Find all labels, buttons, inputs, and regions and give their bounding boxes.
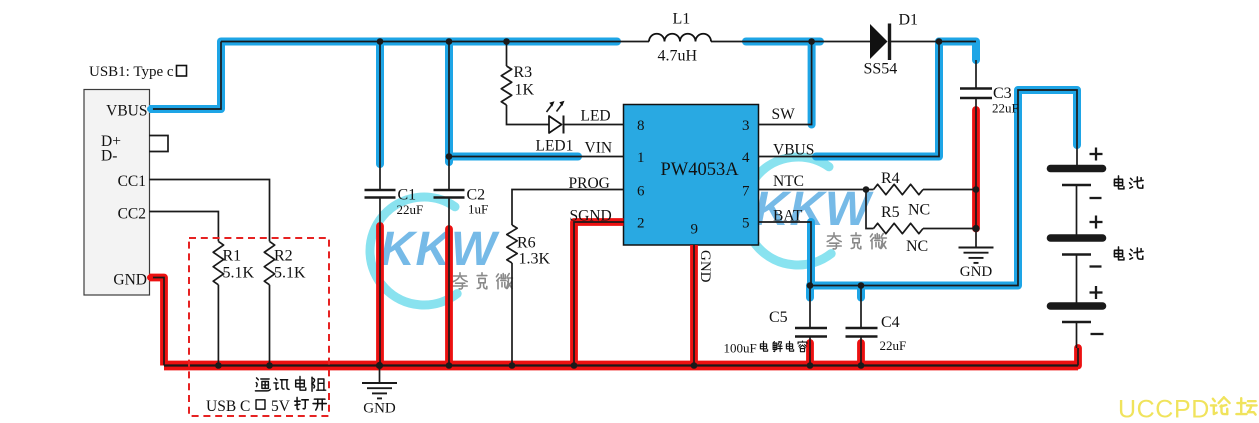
svg-text:BAT: BAT	[773, 208, 803, 225]
capacitor C1 plates	[365, 189, 396, 191]
svg-text:C1: C1	[398, 187, 417, 204]
battery cell 2 link	[1076, 255, 1078, 307]
resistor R3 zigzag	[501, 66, 511, 105]
wire GND red: USB GND down to ground rail	[149, 278, 164, 366]
resistor R4 zigzag	[874, 184, 924, 194]
svg-text:1: 1	[637, 150, 645, 166]
battery cell 3	[1051, 302, 1103, 310]
svg-text:PROG: PROG	[569, 175, 610, 192]
svg-text:D-: D-	[101, 148, 117, 165]
svg-text:KKW: KKW	[380, 223, 500, 276]
wire C4 stub blue	[857, 286, 865, 298]
svg-text:GND: GND	[960, 264, 993, 280]
svg-text:GND: GND	[113, 272, 147, 289]
wire USB GND centerline	[149, 278, 164, 366]
svg-text:4: 4	[742, 150, 750, 166]
node USB VBUS pin	[147, 106, 153, 112]
node R5 right GND	[972, 225, 979, 232]
capacitor C2 plates	[434, 189, 465, 191]
svg-text:USB1: Type c: USB1: Type c	[89, 64, 174, 80]
node diode output	[936, 38, 943, 45]
svg-text:VBUS: VBUS	[106, 103, 147, 120]
node rail pin9	[691, 362, 698, 369]
resistor R1 zigzag	[213, 241, 223, 284]
node rail C4	[858, 362, 865, 369]
svg-text:R3: R3	[514, 64, 533, 81]
svg-text:C4: C4	[881, 314, 900, 331]
wire C5 column centerline	[809, 286, 811, 328]
svg-text:1.3K: 1.3K	[519, 251, 551, 268]
wire CC2 to R1	[149, 212, 218, 242]
wire R5 node to GND symbol	[975, 229, 977, 248]
resistor R2 zigzag	[264, 241, 274, 284]
wire SGND red	[574, 222, 624, 366]
svg-text:NC: NC	[908, 202, 930, 219]
node rail R2	[266, 362, 273, 369]
USB D+ D- shorting bracket	[149, 136, 168, 152]
svg-text:3: 3	[742, 118, 750, 134]
USB connector USB1 body	[84, 90, 150, 296]
wire top rail blue right of L1 to SW corner	[746, 38, 820, 46]
battery cell 1	[1051, 165, 1103, 173]
wire SGND centerline	[574, 222, 624, 366]
wire SW	[759, 42, 812, 125]
node USB GND pin	[147, 275, 153, 281]
label battery 1	[1114, 176, 1124, 189]
svg-text:22uF: 22uF	[397, 202, 424, 217]
wire BAT bottom rail blue	[811, 90, 1077, 286]
wire C1 column	[379, 42, 381, 190]
LED LED1 symbol	[549, 116, 562, 133]
wire VIN blue	[449, 153, 578, 161]
svg-text:PW4053A: PW4053A	[661, 160, 740, 180]
svg-text:1K: 1K	[515, 82, 535, 99]
svg-text:VBUS: VBUS	[773, 142, 814, 159]
label comm resistors	[255, 378, 270, 391]
decor	[370, 197, 500, 305]
svg-text:GND: GND	[697, 250, 713, 283]
ground symbol right of R5	[959, 247, 994, 249]
svg-text:SW: SW	[772, 106, 796, 123]
svg-text:D1: D1	[899, 12, 919, 29]
capacitor C4 plates	[846, 327, 878, 329]
dashed box: CC pull-down resistors group	[189, 238, 329, 416]
wire C5 stub blue	[806, 286, 814, 298]
wire USB VBUS	[149, 42, 221, 110]
wire R3 top lead	[506, 42, 508, 67]
LED LED1 emission arrows	[547, 104, 553, 112]
wire R2 bottom lead	[269, 285, 271, 366]
wire top rail	[221, 41, 649, 43]
wire C2 drop blue	[445, 42, 453, 163]
svg-text:2: 2	[637, 216, 645, 232]
svg-text:UCCPD: UCCPD	[1118, 396, 1210, 423]
node top rail at C2	[446, 38, 453, 45]
wire R5 left lead	[866, 190, 874, 229]
svg-text:100uF: 100uF	[724, 341, 757, 356]
wire C1 lower red	[376, 226, 384, 366]
svg-text:22uF: 22uF	[880, 338, 907, 353]
svg-text:5.1K: 5.1K	[223, 265, 255, 282]
node rail R6	[509, 362, 516, 369]
svg-text:R5: R5	[881, 204, 900, 221]
wire SW riser blue	[808, 42, 816, 125]
wire ground rail red	[164, 361, 1078, 371]
node rail R1	[215, 362, 222, 369]
capacitor C3 plates	[960, 87, 992, 89]
svg-text:NC: NC	[906, 238, 928, 255]
node SW riser on rail	[808, 38, 815, 45]
resistor R5 zigzag	[874, 223, 924, 233]
node BAT rail at C5	[807, 282, 814, 289]
node rail C2	[446, 362, 453, 369]
wire LED cathode to pin8	[564, 124, 624, 126]
wire C3 column centerline	[975, 60, 977, 88]
node rail C5	[807, 362, 814, 369]
wire C4 lower red	[857, 343, 865, 366]
svg-text:VIN: VIN	[585, 140, 613, 157]
svg-text:1uF: 1uF	[468, 202, 488, 217]
wire C5 lower red	[806, 343, 814, 366]
wire R3 to LED	[507, 105, 550, 125]
wire C1 drop blue	[376, 42, 384, 165]
wire battery negative to rail red	[1074, 348, 1082, 366]
svg-text:LED1: LED1	[536, 138, 574, 155]
svg-text:C3: C3	[993, 85, 1012, 102]
battery bottom lead	[1076, 322, 1078, 348]
svg-text:CC1: CC1	[118, 173, 146, 190]
wire PROG from pin6	[512, 190, 624, 226]
svg-text:SGND: SGND	[570, 208, 612, 225]
wire diode output to VBUS pin blue	[816, 42, 939, 157]
resistor R6 zigzag	[507, 225, 517, 263]
svg-text:R4: R4	[881, 170, 900, 187]
wire C2 column	[448, 42, 450, 190]
wire VBUS pin4	[759, 42, 940, 157]
wire C3 lower red	[972, 110, 980, 229]
svg-text:6: 6	[637, 184, 645, 200]
svg-text:5: 5	[742, 216, 750, 232]
svg-text:9: 9	[691, 222, 699, 238]
svg-text:L1: L1	[673, 11, 691, 28]
wire R4 right lead	[923, 189, 976, 191]
svg-text:8: 8	[637, 118, 645, 134]
wire R5 right lead	[923, 228, 976, 230]
node rail GND symbol	[376, 362, 383, 369]
svg-text:R2: R2	[274, 248, 293, 265]
wire C4 column centerline	[860, 286, 862, 328]
svg-text:22uF: 22uF	[992, 101, 1019, 116]
wire BAT pin5	[759, 222, 812, 286]
battery cell 1 link	[1076, 185, 1078, 238]
svg-text:C5: C5	[769, 309, 788, 326]
svg-text:7: 7	[742, 184, 750, 200]
wire R6 bottom lead	[511, 263, 513, 366]
label battery 2	[1114, 247, 1124, 260]
inductor L1	[649, 34, 711, 42]
wire top rail blue left of L1	[221, 38, 617, 46]
svg-text:GND: GND	[363, 401, 396, 417]
svg-text:NTC: NTC	[773, 173, 804, 190]
battery cell 2	[1051, 234, 1103, 242]
node R4 right	[973, 186, 980, 193]
diode D1 SS54	[870, 24, 888, 59]
node top rail at C1	[377, 38, 384, 45]
node top rail at R3	[503, 38, 510, 45]
wire battery loop centerline	[811, 90, 1077, 286]
svg-text:4.7uH: 4.7uH	[658, 48, 698, 65]
wire diode output to C3 blue	[939, 42, 976, 61]
wire VBUS-in blue: USB VBUS to top rail	[149, 42, 221, 110]
node BAT rail at C4	[858, 282, 865, 289]
wire ground rail centerline	[164, 364, 1078, 366]
wire C2 lower red	[445, 229, 453, 366]
svg-text:5.1K: 5.1K	[274, 265, 306, 282]
wire NTC pin7	[759, 189, 874, 191]
ground symbol under C1 rail	[379, 366, 381, 383]
wire R1 bottom lead	[217, 285, 219, 366]
svg-text:USB C: USB C	[206, 398, 250, 415]
capacitor C5 plates	[795, 327, 827, 329]
node rail SGND	[571, 362, 578, 369]
op-amp/charger IC U1 PW4053A body	[624, 105, 759, 246]
wire pin9 centerline	[693, 245, 695, 366]
wire pin9 GND red	[690, 245, 698, 366]
node NTC/R4/R5	[863, 186, 870, 193]
svg-text:5V: 5V	[271, 398, 291, 415]
svg-text:CC2: CC2	[118, 206, 146, 223]
wire CC1 to R2	[149, 180, 270, 242]
svg-text:R1: R1	[223, 248, 242, 265]
svg-text:SS54: SS54	[864, 61, 898, 78]
node VIN/C2	[446, 153, 453, 160]
wire VIN	[449, 156, 624, 158]
svg-text:R6: R6	[517, 235, 536, 252]
wire BAT riser blue	[807, 222, 815, 286]
svg-text:LED: LED	[581, 108, 611, 125]
battery plus minus marks	[1090, 153, 1103, 155]
